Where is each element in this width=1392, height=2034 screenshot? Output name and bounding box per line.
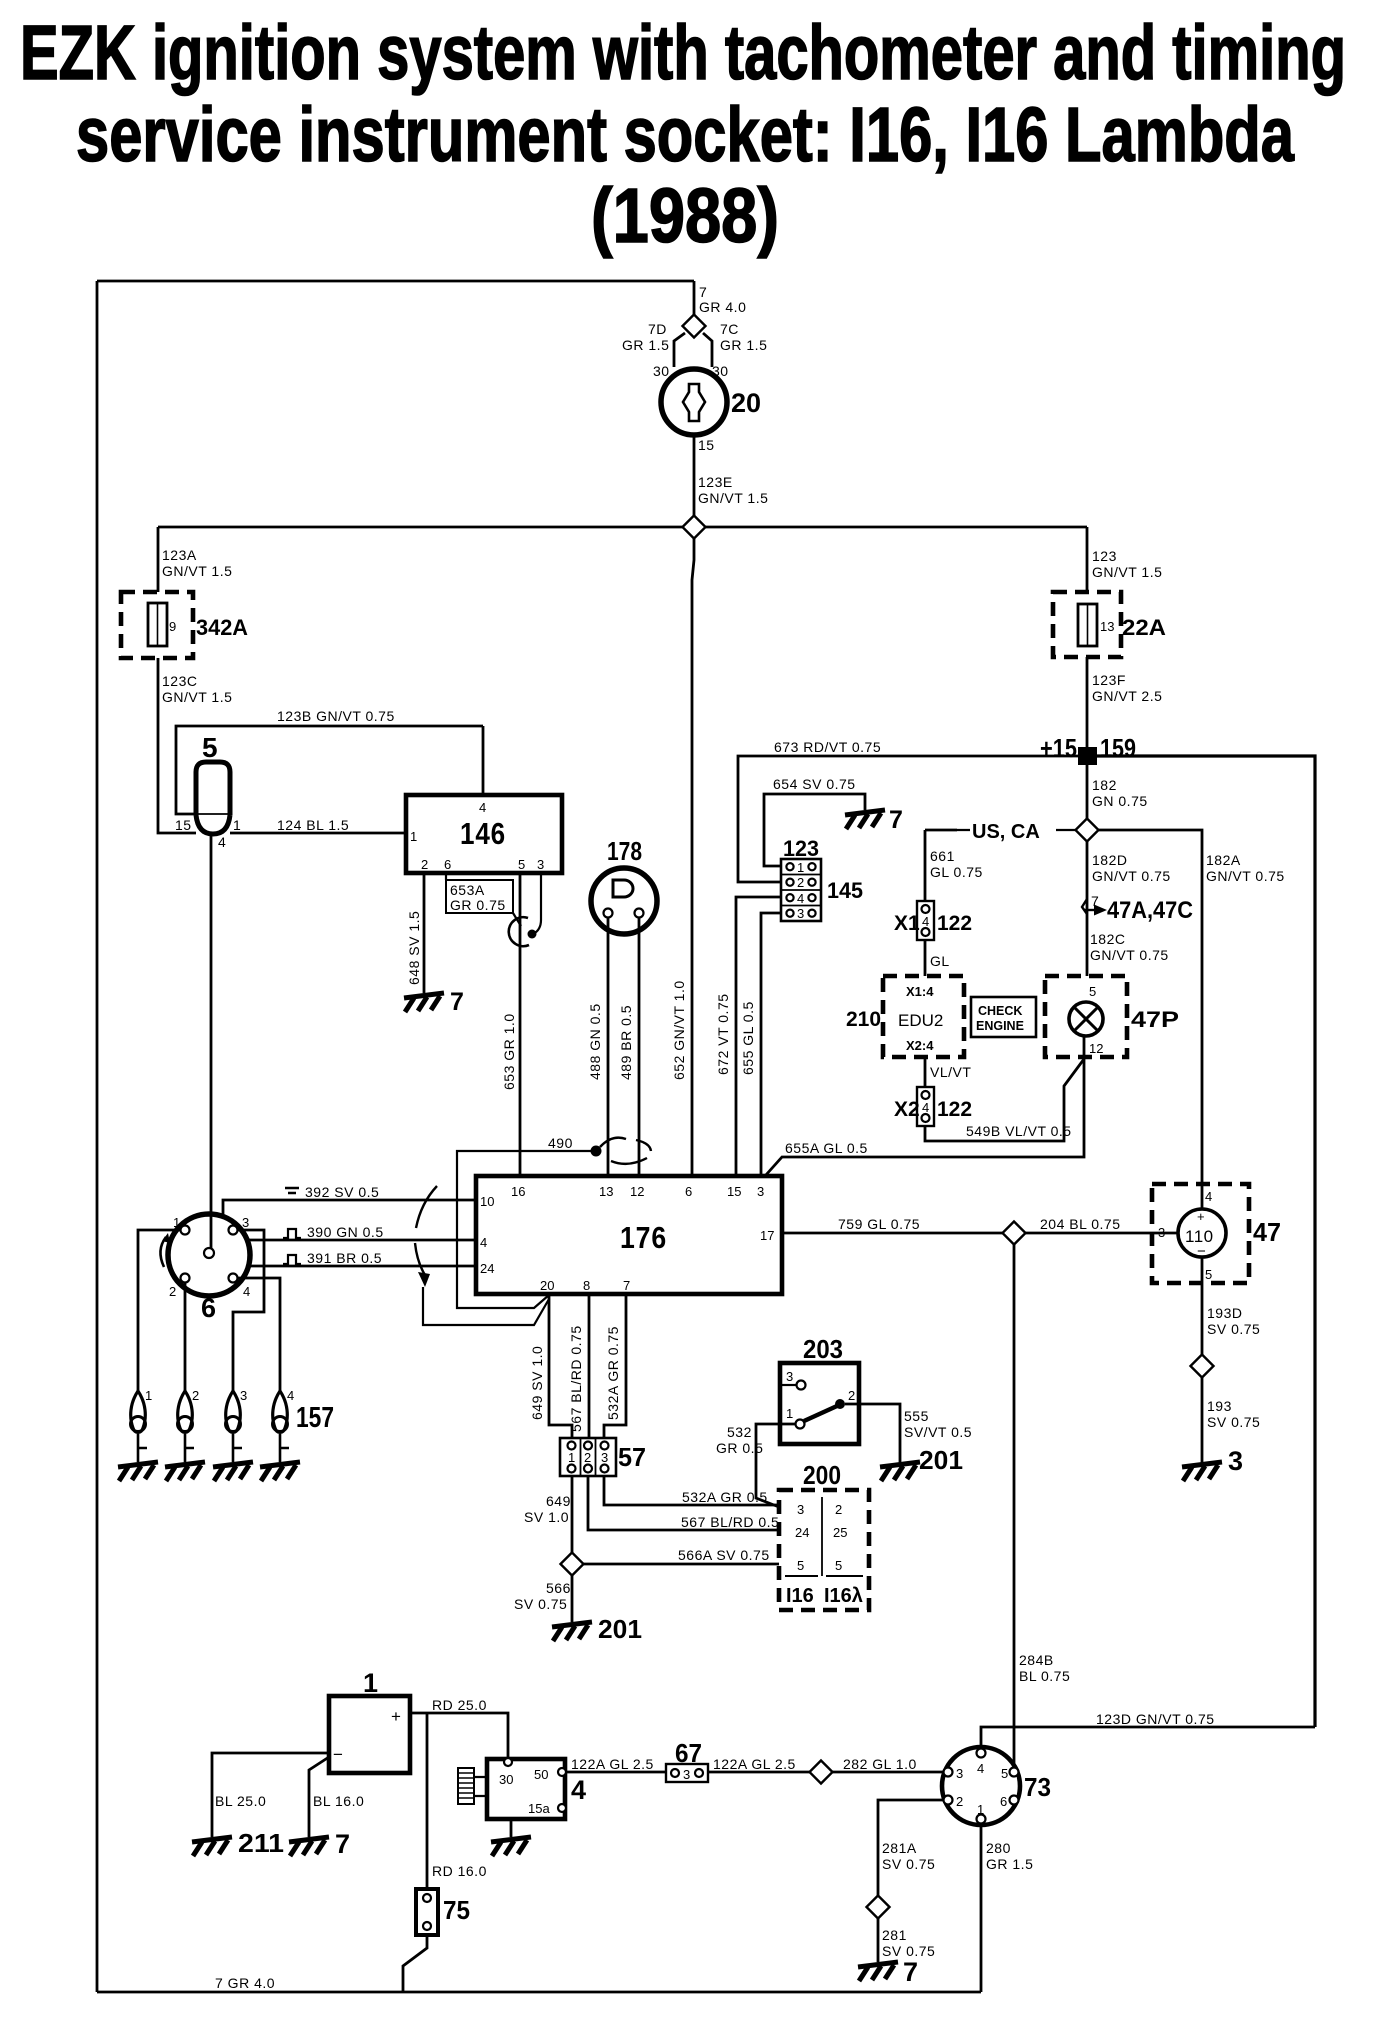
svg-text:673 RD/VT 0.75: 673 RD/VT 0.75 bbox=[774, 739, 881, 755]
svg-text:GN/VT 0.75: GN/VT 0.75 bbox=[1206, 868, 1285, 884]
svg-text:123B GN/VT 0.75: 123B GN/VT 0.75 bbox=[277, 708, 395, 724]
svg-text:SV 0.75: SV 0.75 bbox=[1207, 1414, 1260, 1430]
svg-text:204 BL 0.75: 204 BL 0.75 bbox=[1040, 1216, 1121, 1232]
svg-text:+15: +15 bbox=[1040, 733, 1077, 763]
svg-text:648 SV 1.5: 648 SV 1.5 bbox=[406, 911, 422, 985]
wire 488 GN 0.5 bbox=[607, 918, 610, 1177]
svg-text:US, CA: US, CA bbox=[972, 821, 1040, 843]
svg-text:13: 13 bbox=[599, 1184, 613, 1199]
spark plug 1 bbox=[131, 1391, 148, 1462]
svg-text:123: 123 bbox=[1092, 548, 1117, 564]
svg-text:5: 5 bbox=[202, 732, 218, 763]
svg-text:4: 4 bbox=[1205, 1189, 1212, 1204]
wire 652 GN/VT 1.0 bbox=[692, 538, 694, 1176]
svg-text:532A GR 0.75: 532A GR 0.75 bbox=[605, 1326, 621, 1420]
svg-text:7: 7 bbox=[623, 1278, 630, 1293]
svg-text:GN/VT 0.75: GN/VT 0.75 bbox=[1090, 947, 1169, 963]
wire coil 4 to distributor bbox=[210, 834, 213, 1249]
wire 673 RD/VT 0.75 bbox=[738, 756, 1078, 882]
svg-text:123D GN/VT 0.75: 123D GN/VT 0.75 bbox=[1096, 1711, 1215, 1727]
svg-text:X1: X1 bbox=[894, 912, 920, 935]
svg-text:2: 2 bbox=[169, 1284, 176, 1299]
wire 648 SV 1.5 to ground bbox=[423, 873, 426, 993]
svg-text:7: 7 bbox=[1091, 893, 1099, 909]
wire 532A GR 0.5 bbox=[604, 1476, 779, 1505]
splice arc bbox=[509, 917, 529, 946]
svg-text:6: 6 bbox=[1000, 1794, 1007, 1809]
svg-text:X1:4: X1:4 bbox=[906, 984, 934, 999]
svg-text:VL/VT: VL/VT bbox=[930, 1064, 971, 1080]
svg-text:122A GL 2.5: 122A GL 2.5 bbox=[571, 1756, 654, 1772]
svg-text:7: 7 bbox=[889, 806, 903, 834]
svg-text:1: 1 bbox=[233, 817, 241, 833]
svg-text:3: 3 bbox=[797, 1502, 804, 1517]
fuse 342A bbox=[121, 592, 193, 658]
warning lamp 47P bbox=[1045, 976, 1127, 1057]
svg-text:7D: 7D bbox=[648, 321, 667, 337]
spark plug 3 bbox=[226, 1391, 243, 1462]
wire 532A GR 0.75 (pin 7) bbox=[604, 1294, 626, 1441]
svg-text:1: 1 bbox=[977, 1802, 984, 1817]
svg-text:201: 201 bbox=[919, 1445, 963, 1475]
svg-text:655A GL 0.5: 655A GL 0.5 bbox=[785, 1140, 868, 1156]
wire BL 25.0 bbox=[212, 1753, 329, 1837]
svg-text:15a: 15a bbox=[528, 1801, 550, 1816]
wire 122A GL 2.5 (left) bbox=[566, 1771, 666, 1774]
svg-text:1: 1 bbox=[145, 1388, 152, 1403]
svg-text:123C: 123C bbox=[162, 673, 197, 689]
svg-text:I16λ: I16λ bbox=[824, 1585, 863, 1607]
svg-text:25: 25 bbox=[833, 1525, 847, 1540]
control unit 176 bbox=[476, 1176, 782, 1294]
svg-text:75: 75 bbox=[443, 1895, 470, 1925]
svg-text:5: 5 bbox=[1001, 1766, 1008, 1781]
wire 123F GN/VT 2.5 bbox=[1086, 657, 1089, 747]
svg-text:157: 157 bbox=[296, 1402, 334, 1434]
wire RD 25.0 bbox=[410, 1713, 508, 1762]
relay 146 bbox=[406, 795, 562, 873]
node diamond 282 bbox=[810, 1761, 833, 1784]
svg-text:342A: 342A bbox=[196, 615, 248, 640]
svg-text:47P: 47P bbox=[1131, 1007, 1179, 1032]
svg-text:178: 178 bbox=[607, 836, 642, 866]
ignition switch 20 bbox=[661, 369, 727, 435]
svg-text:176: 176 bbox=[620, 1220, 667, 1255]
shield 490 bbox=[457, 1151, 592, 1308]
svg-text:200: 200 bbox=[803, 1460, 841, 1490]
node diamond above ignition switch bbox=[683, 315, 706, 338]
wire 7C branch bbox=[703, 333, 712, 367]
svg-text:203: 203 bbox=[803, 1334, 843, 1364]
wire 123B GN/VT 0.75 bbox=[176, 726, 483, 814]
svg-text:182: 182 bbox=[1092, 777, 1117, 793]
wire US CA branch bbox=[957, 829, 1076, 831]
svg-text:10: 10 bbox=[480, 1194, 494, 1209]
svg-text:GN/VT 1.5: GN/VT 1.5 bbox=[698, 490, 768, 506]
svg-text:3: 3 bbox=[797, 906, 804, 921]
svg-text:566: 566 bbox=[546, 1580, 571, 1596]
svg-text:652 GN/VT 1.0: 652 GN/VT 1.0 bbox=[671, 980, 687, 1080]
svg-text:9: 9 bbox=[169, 619, 176, 634]
wire 567 BL/RD 0.75 (pin 8) bbox=[588, 1294, 591, 1441]
svg-text:SV/VT 0.5: SV/VT 0.5 bbox=[904, 1424, 972, 1440]
connector 73 bbox=[942, 1747, 1020, 1825]
svg-text:16: 16 bbox=[511, 1184, 525, 1199]
wire 281 SV 0.75 bbox=[877, 1918, 880, 1962]
svg-text:20: 20 bbox=[731, 388, 761, 418]
svg-text:4: 4 bbox=[287, 1388, 294, 1403]
svg-text:567 BL/RD 0.75: 567 BL/RD 0.75 bbox=[568, 1325, 584, 1432]
svg-text:201: 201 bbox=[598, 1614, 642, 1644]
wire 182D GN/VT 0.75 bbox=[1086, 841, 1089, 976]
svg-text:15: 15 bbox=[175, 817, 192, 833]
wire 124 BL 1.5 bbox=[230, 832, 406, 835]
svg-text:3: 3 bbox=[956, 1766, 963, 1781]
svg-text:661: 661 bbox=[930, 848, 955, 864]
wire 391 BR 0.5 bbox=[248, 1265, 476, 1268]
svg-text:2: 2 bbox=[192, 1388, 199, 1403]
wire 532 GR 0.5 bbox=[756, 1424, 796, 1507]
svg-text:SV 0.75: SV 0.75 bbox=[1207, 1321, 1260, 1337]
svg-text:X2: X2 bbox=[894, 1098, 920, 1121]
svg-text:50: 50 bbox=[534, 1767, 548, 1782]
wire 123D GN/VT 0.75 bbox=[981, 1727, 1315, 1750]
svg-text:4: 4 bbox=[243, 1284, 250, 1299]
svg-text:17: 17 bbox=[760, 1228, 774, 1243]
TITLE bbox=[20, 10, 1346, 259]
svg-text:47: 47 bbox=[1253, 1217, 1281, 1247]
svg-text:122: 122 bbox=[937, 912, 972, 935]
svg-text:RD 16.0: RD 16.0 bbox=[432, 1863, 487, 1879]
wire 193D SV 0.75 bbox=[1201, 1257, 1204, 1355]
wire 392 SV 0.5 bbox=[223, 1200, 476, 1217]
svg-text:5: 5 bbox=[835, 1558, 842, 1573]
svg-text:146: 146 bbox=[460, 816, 506, 851]
svg-text:5: 5 bbox=[518, 857, 525, 872]
svg-text:15: 15 bbox=[698, 437, 715, 453]
wire 655A GL 0.5 bbox=[765, 1036, 1084, 1176]
wire left border 7 GR 4.0 bbox=[96, 281, 99, 1992]
wire starter ground bbox=[510, 1819, 513, 1837]
wire 280 GR 1.5 bbox=[980, 1823, 983, 1992]
wire ignition feed vertical bbox=[693, 281, 696, 316]
svg-text:BL 16.0: BL 16.0 bbox=[313, 1793, 364, 1809]
wire 7D branch bbox=[674, 333, 685, 367]
svg-text:5: 5 bbox=[797, 1558, 804, 1573]
svg-text:654 SV 0.75: 654 SV 0.75 bbox=[773, 776, 856, 792]
wire 549B VL/VT 0.5 bbox=[925, 1059, 1084, 1141]
wire 182A GN/VT 0.75 bbox=[1098, 830, 1202, 1184]
wire +15 feed right to 123D bbox=[1097, 756, 1315, 1727]
svg-text:4: 4 bbox=[922, 914, 929, 929]
svg-text:SV 0.75: SV 0.75 bbox=[882, 1856, 935, 1872]
ground 7 (battery) bbox=[289, 1837, 329, 1856]
svg-text:4: 4 bbox=[218, 834, 226, 850]
svg-text:649: 649 bbox=[546, 1493, 571, 1509]
svg-text:12: 12 bbox=[1089, 1041, 1103, 1056]
wire 123 GN/VT 1.5 bbox=[1086, 527, 1089, 592]
spark plug 4 bbox=[273, 1391, 290, 1462]
svg-text:4: 4 bbox=[977, 1761, 984, 1776]
svg-text:30: 30 bbox=[499, 1772, 513, 1787]
svg-text:3: 3 bbox=[1158, 1225, 1165, 1240]
svg-text:7: 7 bbox=[903, 1957, 918, 1987]
ground plug3 bbox=[213, 1462, 253, 1481]
wire 759 GL 0.75 bbox=[782, 1232, 1178, 1235]
wire 182 GN 0.75 bbox=[1086, 765, 1089, 819]
rotation arrow bbox=[160, 1237, 166, 1267]
svg-text:−: − bbox=[333, 1745, 343, 1764]
label box 653A GR 0.75 bbox=[445, 873, 447, 880]
svg-text:281: 281 bbox=[882, 1927, 907, 1943]
wire 284B BL 0.75 bbox=[1013, 1244, 1016, 1768]
wire 661 GL 0.75 bbox=[925, 830, 957, 901]
svg-text:4: 4 bbox=[480, 1235, 487, 1250]
connector X2 122 bbox=[917, 1087, 934, 1126]
svg-text:488 GN 0.5: 488 GN 0.5 bbox=[587, 1003, 603, 1080]
svg-text:GR 1.5: GR 1.5 bbox=[986, 1856, 1033, 1872]
wire 123C GN/VT 1.5 bbox=[158, 658, 196, 833]
ground (starter) bbox=[491, 1837, 531, 1856]
svg-text:SV 1.0: SV 1.0 bbox=[524, 1509, 569, 1525]
svg-text:4: 4 bbox=[922, 1100, 929, 1115]
svg-text:ENGINE: ENGINE bbox=[976, 1019, 1024, 1033]
wire 555 SV/VT 0.5 bbox=[845, 1404, 900, 1465]
shield drain wire to pin 20 bbox=[423, 1287, 549, 1325]
svg-text:+: + bbox=[391, 1707, 401, 1726]
wire 649 SV 1.0 below 57 bbox=[571, 1476, 574, 1553]
svg-text:159: 159 bbox=[1100, 733, 1136, 763]
svg-text:GN/VT 0.75: GN/VT 0.75 bbox=[1092, 868, 1171, 884]
svg-text:6: 6 bbox=[201, 1293, 216, 1323]
svg-text:30: 30 bbox=[653, 363, 670, 379]
wire 489 BR 0.5 bbox=[638, 918, 641, 1177]
wire 146 pin3 to splice bbox=[533, 873, 541, 934]
svg-text:489 BR 0.5: 489 BR 0.5 bbox=[618, 1005, 634, 1080]
ground plug1 bbox=[118, 1462, 158, 1481]
wire 146 pin4 bbox=[482, 726, 485, 795]
svg-text:service instrument socket: I16: service instrument socket: I16, I16 Lamb… bbox=[76, 92, 1295, 178]
svg-text:12: 12 bbox=[630, 1184, 644, 1199]
ground 201 (555) bbox=[880, 1462, 920, 1481]
svg-text:(1988): (1988) bbox=[591, 173, 779, 259]
svg-text:211: 211 bbox=[238, 1828, 284, 1858]
svg-text:1: 1 bbox=[363, 1668, 378, 1698]
svg-text:3: 3 bbox=[601, 1450, 608, 1465]
wire 566 SV 0.75 bbox=[571, 1575, 574, 1622]
svg-text:GR 1.5: GR 1.5 bbox=[720, 337, 767, 353]
node diamond 281 bbox=[867, 1896, 890, 1919]
fuse 75 bbox=[416, 1889, 438, 1935]
svg-text:GN/VT 1.5: GN/VT 1.5 bbox=[1092, 564, 1162, 580]
svg-text:2: 2 bbox=[956, 1794, 963, 1809]
svg-text:GN/VT 1.5: GN/VT 1.5 bbox=[162, 563, 232, 579]
svg-text:653A: 653A bbox=[450, 882, 485, 898]
svg-text:1: 1 bbox=[786, 1406, 793, 1421]
svg-text:182A: 182A bbox=[1206, 852, 1241, 868]
ground plug4 bbox=[260, 1462, 300, 1481]
svg-text:122: 122 bbox=[937, 1098, 972, 1121]
svg-text:280: 280 bbox=[986, 1840, 1011, 1856]
wire 655 GL 0.5 (to ECU pin3) bbox=[761, 913, 781, 1176]
svg-text:2: 2 bbox=[584, 1450, 591, 1465]
node +15 159 bbox=[1078, 747, 1097, 765]
svg-text:3: 3 bbox=[1228, 1446, 1243, 1476]
svg-text:EDU2: EDU2 bbox=[898, 1011, 943, 1030]
svg-text:2: 2 bbox=[797, 875, 804, 890]
node diamond 566 bbox=[561, 1553, 584, 1576]
shield arc distributor wires bbox=[415, 1186, 437, 1275]
svg-text:284B: 284B bbox=[1019, 1652, 1054, 1668]
svg-text:4: 4 bbox=[479, 800, 486, 815]
svg-text:GL: GL bbox=[930, 953, 950, 969]
svg-text:BL 0.75: BL 0.75 bbox=[1019, 1668, 1070, 1684]
svg-text:5: 5 bbox=[1205, 1267, 1212, 1282]
svg-text:3: 3 bbox=[242, 1215, 249, 1230]
wire top border to ignition bbox=[97, 280, 694, 283]
svg-text:GR 0.75: GR 0.75 bbox=[450, 897, 506, 913]
ground 7 (654) bbox=[845, 810, 885, 829]
wire plug 4 bbox=[237, 1278, 280, 1391]
svg-text:6: 6 bbox=[685, 1184, 692, 1199]
svg-text:7C: 7C bbox=[720, 321, 739, 337]
wire 122A GL 2.5 (right) bbox=[708, 1771, 810, 1774]
svg-text:1: 1 bbox=[797, 860, 804, 875]
svg-text:3: 3 bbox=[240, 1388, 247, 1403]
svg-text:653 GR 1.0: 653 GR 1.0 bbox=[501, 1013, 517, 1090]
svg-text:15: 15 bbox=[727, 1184, 741, 1199]
shield arcs at 488/489 bbox=[600, 1138, 651, 1164]
svg-text:7: 7 bbox=[335, 1829, 350, 1859]
wire main bus 123 bbox=[158, 526, 1087, 529]
ground 3 bbox=[1182, 1462, 1222, 1481]
svg-text:20: 20 bbox=[540, 1278, 554, 1293]
svg-text:392 SV 0.5: 392 SV 0.5 bbox=[305, 1184, 379, 1200]
svg-text:567 BL/RD 0.5: 567 BL/RD 0.5 bbox=[681, 1514, 779, 1530]
svg-text:490: 490 bbox=[548, 1135, 573, 1151]
wire plug 1 bbox=[138, 1230, 181, 1391]
wire 193 SV 0.75 bbox=[1201, 1377, 1204, 1465]
svg-text:1: 1 bbox=[568, 1450, 575, 1465]
svg-text:182D: 182D bbox=[1092, 852, 1127, 868]
svg-text:555: 555 bbox=[904, 1408, 929, 1424]
svg-text:7 GR 4.0: 7 GR 4.0 bbox=[215, 1975, 275, 1991]
svg-text:GN/VT 1.5: GN/VT 1.5 bbox=[162, 689, 232, 705]
wire plug 2 bbox=[184, 1282, 187, 1391]
node diamond 182 bbox=[1076, 819, 1099, 842]
svg-text:3: 3 bbox=[757, 1184, 764, 1199]
svg-text:X2:4: X2:4 bbox=[906, 1038, 934, 1053]
tachometer 47 bbox=[1152, 1184, 1249, 1283]
svg-text:390 GN 0.5: 390 GN 0.5 bbox=[307, 1224, 384, 1240]
wire 282 GL 1.0 bbox=[832, 1771, 944, 1774]
ground 7 (relay 146) bbox=[404, 993, 444, 1012]
wire RD 16.0 bbox=[426, 1713, 429, 1889]
svg-text:I16: I16 bbox=[786, 1585, 814, 1607]
starter solenoid coil bbox=[458, 1768, 474, 1804]
wire GL to EDU2 bbox=[924, 940, 927, 976]
node diamond 193 bbox=[1191, 1355, 1214, 1378]
wire 566A SV 0.75 bbox=[583, 1563, 779, 1566]
svg-text:SV 0.75: SV 0.75 bbox=[514, 1596, 567, 1612]
wire 123E GN/VT 1.5 bbox=[693, 435, 696, 516]
svg-text:123A: 123A bbox=[162, 547, 197, 563]
svg-text:73: 73 bbox=[1024, 1772, 1051, 1802]
wire 567 BL/RD 0.5 bbox=[588, 1476, 779, 1530]
svg-text:2: 2 bbox=[421, 857, 428, 872]
svg-text:RD 25.0: RD 25.0 bbox=[432, 1697, 487, 1713]
svg-text:532: 532 bbox=[727, 1424, 752, 1440]
svg-text:4: 4 bbox=[797, 891, 804, 906]
ground 211 bbox=[192, 1837, 232, 1856]
ground 201 (566) bbox=[552, 1622, 592, 1641]
wire 281A SV 0.75 bbox=[878, 1800, 944, 1896]
starter motor 4 bbox=[487, 1759, 565, 1819]
svg-text:47A,47C: 47A,47C bbox=[1107, 897, 1193, 924]
svg-text:124 BL 1.5: 124 BL 1.5 bbox=[277, 817, 349, 833]
svg-text:GR 0.5: GR 0.5 bbox=[716, 1440, 763, 1456]
svg-text:6: 6 bbox=[444, 857, 451, 872]
wire plug 3 bbox=[233, 1230, 264, 1391]
wire 653 GR 1.0 (146 pin5 to ECU pin16) bbox=[519, 873, 522, 1176]
svg-text:GR 4.0: GR 4.0 bbox=[699, 299, 746, 315]
svg-text:122A GL 2.5: 122A GL 2.5 bbox=[713, 1756, 796, 1772]
svg-text:193: 193 bbox=[1207, 1398, 1232, 1414]
svg-text:210: 210 bbox=[846, 1008, 881, 1031]
svg-text:193D: 193D bbox=[1207, 1305, 1242, 1321]
svg-text:1: 1 bbox=[173, 1215, 180, 1230]
svg-text:4: 4 bbox=[571, 1775, 586, 1805]
fuse 22A bbox=[1053, 592, 1121, 657]
ground 7 (281) bbox=[858, 1962, 898, 1981]
svg-text:3: 3 bbox=[537, 857, 544, 872]
svg-text:+: + bbox=[1197, 1209, 1205, 1224]
svg-text:2: 2 bbox=[835, 1502, 842, 1517]
svg-text:22A: 22A bbox=[1122, 615, 1166, 640]
svg-text:182C: 182C bbox=[1090, 931, 1125, 947]
svg-text:759 GL 0.75: 759 GL 0.75 bbox=[838, 1216, 920, 1232]
svg-text:123E: 123E bbox=[698, 474, 733, 490]
svg-text:7: 7 bbox=[450, 988, 464, 1016]
svg-text:145: 145 bbox=[827, 878, 863, 903]
wire 123A GN/VT 1.5 bbox=[157, 527, 160, 592]
svg-text:3: 3 bbox=[683, 1767, 690, 1782]
svg-text:GN 0.75: GN 0.75 bbox=[1092, 793, 1148, 809]
CHECK ENGINE label box bbox=[971, 997, 1036, 1037]
svg-text:5: 5 bbox=[1089, 984, 1096, 999]
svg-text:GN/VT 2.5: GN/VT 2.5 bbox=[1092, 688, 1162, 704]
svg-text:GL 0.75: GL 0.75 bbox=[930, 864, 983, 880]
svg-text:281A: 281A bbox=[882, 1840, 917, 1856]
svg-text:672 VT 0.75: 672 VT 0.75 bbox=[715, 993, 731, 1075]
svg-text:24: 24 bbox=[795, 1525, 809, 1540]
wire 654 SV 0.75 bbox=[764, 794, 865, 866]
connector 57 bbox=[560, 1438, 616, 1476]
svg-text:649 SV 1.0: 649 SV 1.0 bbox=[529, 1346, 545, 1420]
svg-text:3: 3 bbox=[786, 1369, 793, 1384]
svg-text:8: 8 bbox=[583, 1278, 590, 1293]
svg-text:549B VL/VT 0.5: 549B VL/VT 0.5 bbox=[966, 1123, 1072, 1139]
wire 649 SV 1.0 (pin 20) bbox=[549, 1294, 572, 1441]
distributor 6 bbox=[168, 1214, 250, 1296]
svg-text:GR 1.5: GR 1.5 bbox=[622, 337, 669, 353]
wire 390 GN 0.5 bbox=[247, 1239, 476, 1242]
svg-text:282 GL 1.0: 282 GL 1.0 bbox=[843, 1756, 917, 1772]
svg-text:1: 1 bbox=[410, 829, 417, 844]
svg-text:CHECK: CHECK bbox=[978, 1004, 1022, 1018]
svg-text:24: 24 bbox=[480, 1261, 494, 1276]
wire bottom 7 GR 4.0 bbox=[97, 1991, 981, 1994]
